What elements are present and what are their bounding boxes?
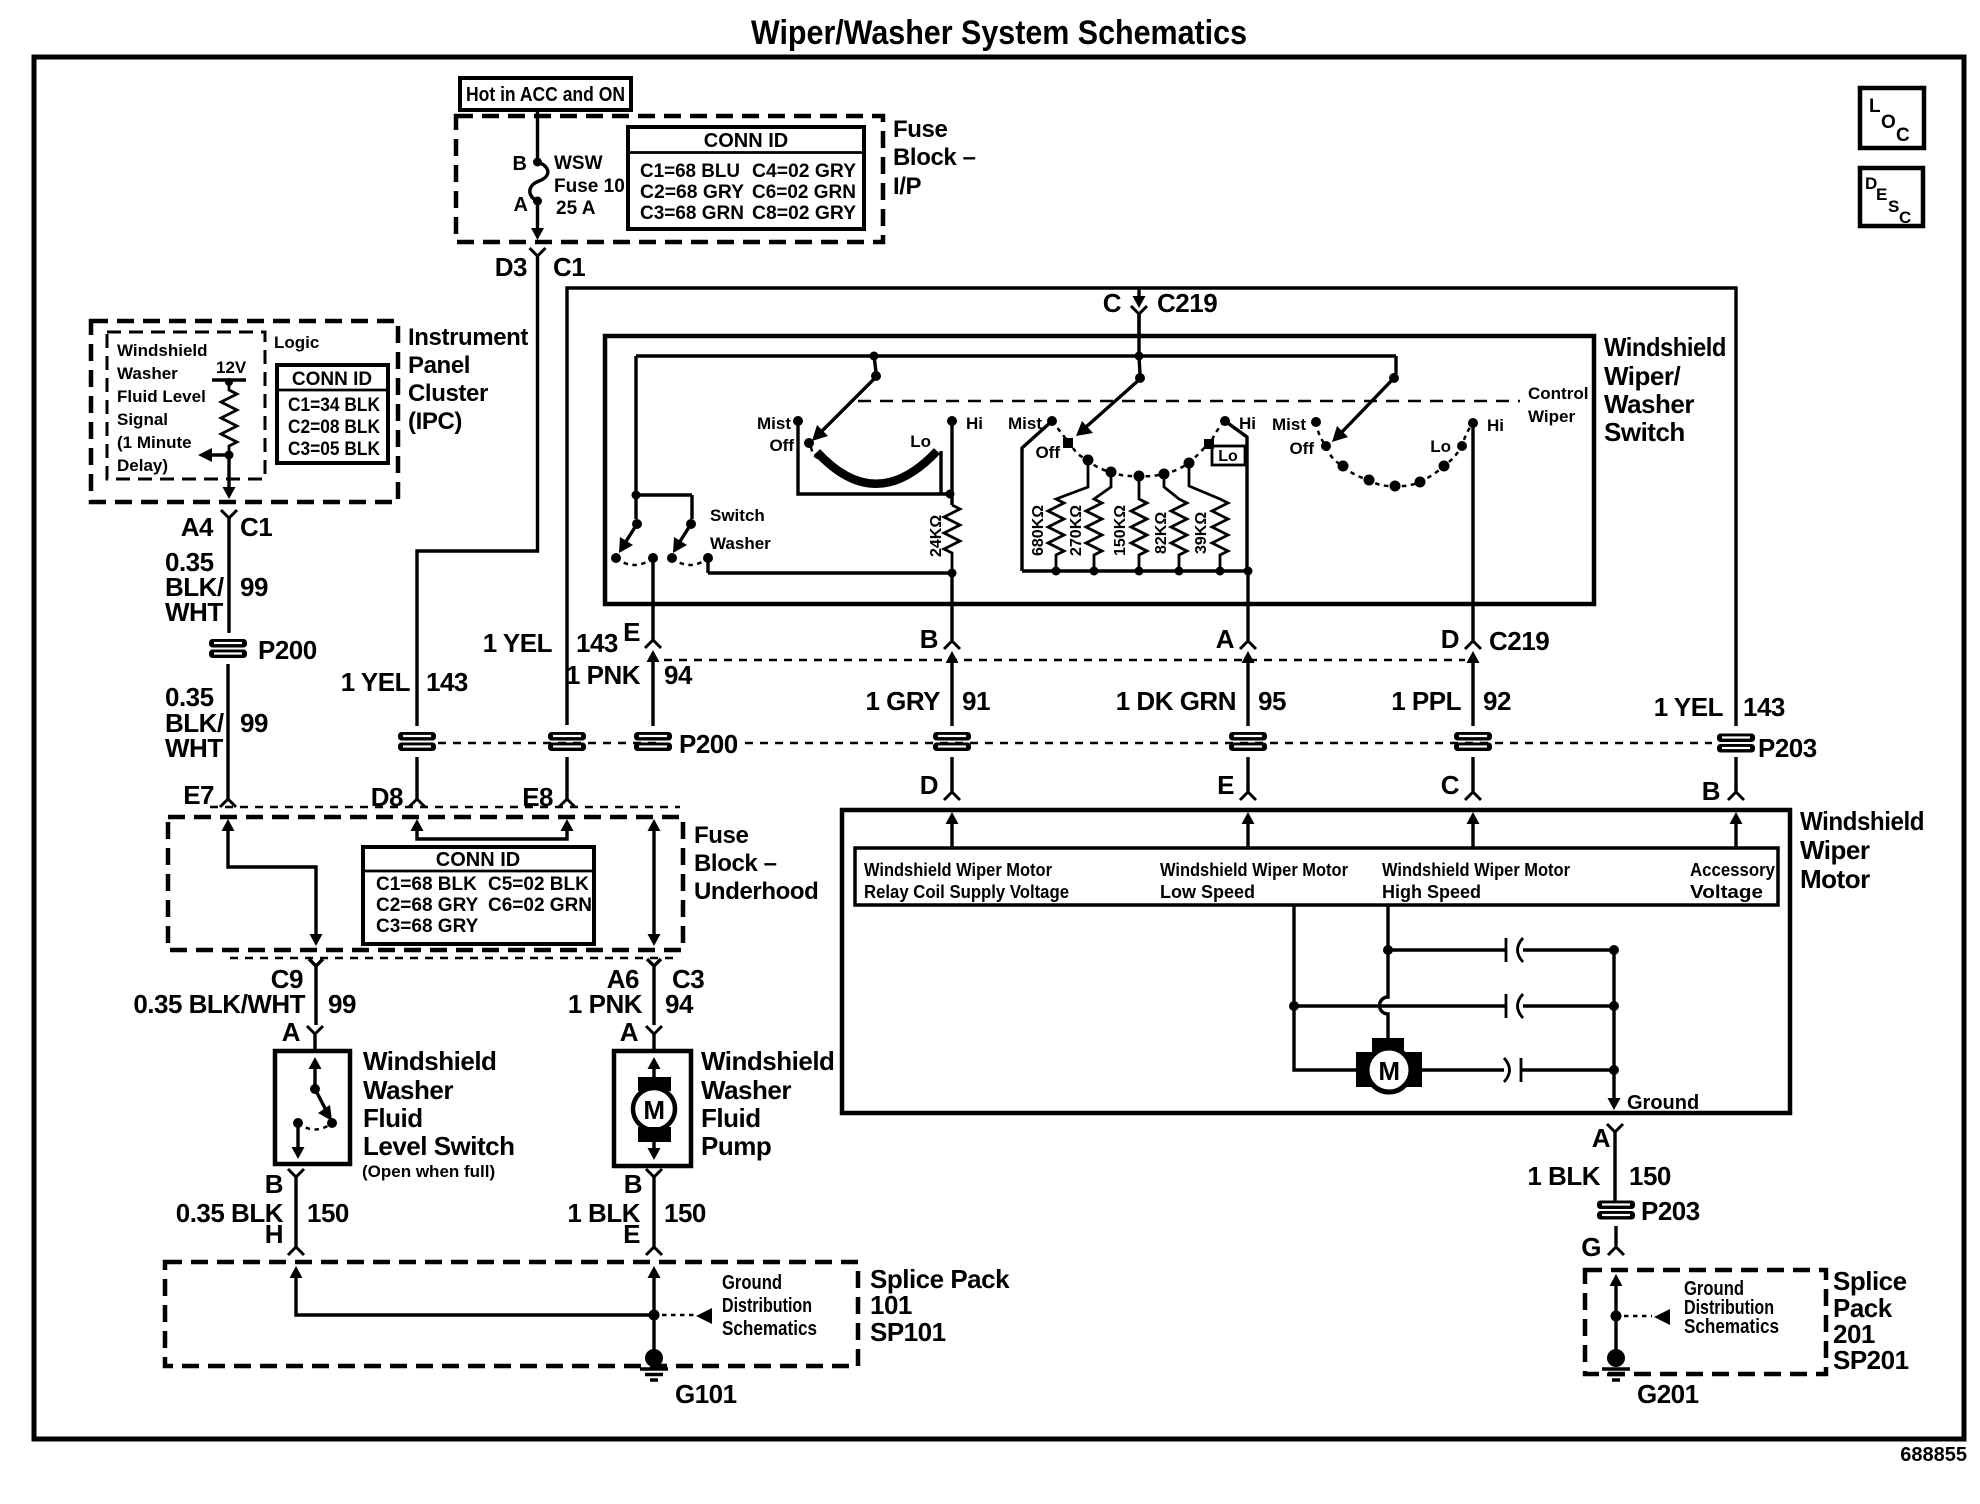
svg-text:C2=68 GRY: C2=68 GRY (640, 182, 744, 203)
resistor 680K (1030, 460, 1088, 576)
terminal A (C219) (1216, 604, 1256, 726)
fuse WSW Fuse 10 25A (513, 153, 625, 240)
entry arrows into motor box (946, 812, 959, 848)
terminal B (motor accessory) (1702, 776, 1744, 806)
svg-text:Panel: Panel (408, 352, 470, 379)
h2 with capacitor (1294, 994, 1614, 1018)
svg-text:Washer: Washer (710, 534, 771, 553)
resistor 24K (944, 505, 960, 569)
wire label 0.35 BLK 150 (176, 1198, 349, 1228)
svg-text:150KΩ: 150KΩ (1112, 505, 1129, 556)
arc dots g3 (1338, 461, 1450, 492)
svg-text:C219: C219 (1157, 288, 1217, 318)
terminal E7 (183, 780, 236, 810)
svg-text:Delay): Delay) (117, 456, 168, 475)
svg-text:Mist: Mist (1272, 415, 1306, 434)
svg-text:Wiper/Washer System Schematics: Wiper/Washer System Schematics (751, 14, 1247, 52)
svg-text:Lo: Lo (1430, 437, 1451, 456)
dashed arc g3 (1316, 422, 1473, 486)
motor internal: high speed drop v1 (1294, 905, 1356, 1070)
terminal D (C219) (1441, 604, 1549, 726)
svg-text:C5=02 BLK: C5=02 BLK (488, 874, 589, 895)
svg-text:Windshield: Windshield (363, 1046, 496, 1076)
resistor 150K (1112, 476, 1147, 576)
svg-text:C: C (1441, 770, 1460, 800)
svg-text:1 PPL: 1 PPL (1391, 686, 1461, 716)
svg-text:150: 150 (1629, 1161, 1671, 1191)
label Switch Washer (710, 506, 771, 553)
svg-text:1 YEL: 1 YEL (483, 628, 553, 658)
washer output wire to E (651, 558, 654, 604)
svg-text:Underhood: Underhood (694, 878, 818, 905)
svg-text:C1=68 BLK: C1=68 BLK (376, 874, 477, 895)
terminal E (C219) (623, 604, 661, 726)
inline connector P203 on accessory wire (1717, 733, 1817, 763)
svg-text:Block –: Block – (893, 144, 976, 171)
CONN ID table (underhood) (363, 847, 594, 944)
svg-text:C6=02 GRN: C6=02 GRN (488, 895, 592, 916)
label pump (701, 1046, 834, 1161)
svg-text:Hi: Hi (1487, 416, 1504, 435)
svg-text:O: O (1881, 112, 1896, 133)
svg-text:Fuse: Fuse (694, 822, 748, 849)
svg-text:B: B (513, 153, 527, 175)
svg-text:12V: 12V (216, 358, 247, 377)
svg-text:P200: P200 (679, 729, 738, 759)
svg-text:82KΩ: 82KΩ (1153, 512, 1170, 554)
svg-text:Lo: Lo (910, 432, 931, 451)
svg-text:B: B (920, 624, 938, 654)
svg-text:C8=02 GRY: C8=02 GRY (752, 203, 856, 224)
C219 dashed connector line (664, 659, 1465, 662)
bus junction to A output (1244, 567, 1253, 605)
svg-text:C1: C1 (553, 252, 585, 282)
svg-text:E7: E7 (183, 780, 214, 810)
svg-text:143: 143 (576, 628, 618, 658)
control wiper dashed line (858, 400, 1520, 403)
resistor 39K (1189, 463, 1228, 576)
svg-text:Windshield: Windshield (1604, 332, 1726, 362)
motor internal: drop v2 with hop (1380, 905, 1389, 1038)
svg-text:B: B (624, 1169, 642, 1199)
svg-text:1 YEL: 1 YEL (1654, 692, 1724, 722)
svg-text:Mist: Mist (757, 414, 791, 433)
svg-text:39KΩ: 39KΩ (1193, 512, 1210, 554)
switch box (605, 336, 1594, 604)
junction v1/h2 (1289, 1001, 1299, 1011)
svg-text:(IPC): (IPC) (408, 408, 462, 435)
wire P200 to E8 (565, 757, 568, 799)
svg-text:Accessory: Accessory (1690, 860, 1775, 880)
wire label 1 BLK 150 (567, 1198, 706, 1228)
svg-text:95: 95 (1258, 686, 1286, 716)
svg-text:Windshield: Windshield (117, 341, 208, 360)
svg-text:Fluid: Fluid (363, 1103, 423, 1133)
svg-text:Windshield: Windshield (701, 1046, 834, 1076)
svg-text:WHT: WHT (165, 597, 223, 627)
fuse block underhood dashed box (168, 817, 683, 950)
dashed arc Off to Lo band g1 (811, 447, 824, 460)
SP101 internals: E branch to ground (648, 1266, 661, 1352)
svg-text:Fluid Level: Fluid Level (117, 387, 206, 406)
svg-text:A: A (282, 1017, 301, 1047)
wire label 0.35 BLK/WHT 99 (133, 989, 356, 1019)
motor header box (855, 848, 1778, 905)
svg-text:A: A (514, 194, 528, 216)
CONN ID table (I/P) (628, 127, 864, 229)
svg-text:Fuse 10: Fuse 10 (554, 176, 625, 197)
svg-text:C2=68 GRY: C2=68 GRY (376, 895, 479, 916)
svg-text:G101: G101 (675, 1379, 737, 1409)
svg-text:M: M (643, 1095, 664, 1125)
connector face dashed line (top) (210, 806, 680, 809)
svg-text:Ground: Ground (1627, 1092, 1699, 1114)
entry arrows D8-E8 internal link (411, 819, 574, 839)
wire label 0.35 BLK/WHT 99 (lower) (165, 682, 268, 763)
Lo terminal (boxed) g2 (1204, 439, 1245, 465)
header text low speed (1160, 860, 1348, 902)
svg-text:101: 101 (870, 1290, 912, 1320)
svg-text:Off: Off (1289, 439, 1314, 458)
svg-text:Voltage: Voltage (1690, 882, 1763, 902)
inline connector P200 on D8 wire (398, 732, 436, 751)
svg-text:CONN ID: CONN ID (292, 369, 372, 390)
svg-text:Schematics: Schematics (722, 1318, 817, 1340)
g2 left outline Mist to bus (1022, 421, 1052, 571)
g1 common wiring (798, 421, 952, 505)
level switch internals (292, 1057, 338, 1159)
wiper arm 1 (pivot and arrow) (812, 352, 881, 442)
Off terminal g2 (1035, 438, 1073, 462)
svg-text:D3: D3 (495, 252, 527, 282)
terminal D8 (371, 782, 425, 812)
svg-text:Windshield Wiper Motor: Windshield Wiper Motor (1382, 860, 1570, 880)
terminal G (splice pack 201) (1581, 1226, 1624, 1262)
wire label 1 YEL 143 (E8 riser) (483, 628, 618, 658)
svg-text:P203: P203 (1758, 733, 1817, 763)
svg-text:C6=02 GRN: C6=02 GRN (752, 182, 856, 203)
svg-text:150: 150 (664, 1198, 706, 1228)
resistor 82K (1153, 474, 1187, 576)
svg-text:SP101: SP101 (870, 1317, 946, 1347)
wire label 1 PNK 94 (566, 660, 693, 690)
svg-text:Switch: Switch (1604, 417, 1685, 447)
svg-text:Washer: Washer (1604, 389, 1694, 419)
ground bus v3 (1608, 945, 1621, 1110)
Mist terminal g1 (757, 414, 803, 433)
wire P203 down to motor B (1734, 757, 1737, 792)
connector face dashed line (bottom) (230, 957, 680, 960)
svg-text:WHT: WHT (165, 733, 223, 763)
wire down to IPC edge (223, 455, 236, 499)
washer return wire (706, 558, 709, 573)
svg-text:Hot in ACC and ON: Hot in ACC and ON (466, 84, 625, 106)
svg-text:Hi: Hi (1239, 414, 1256, 433)
motor M symbol (1356, 1038, 1422, 1092)
wire A4 to P200 (0.35 BLK/WHT 99) (227, 518, 230, 633)
svg-text:Windshield: Windshield (1800, 806, 1924, 836)
connector A4/C1 (181, 510, 273, 542)
svg-text:C1: C1 (240, 512, 272, 542)
svg-text:99: 99 (240, 572, 268, 602)
svg-text:B: B (265, 1169, 283, 1199)
svg-text:C: C (1103, 288, 1122, 318)
svg-text:C2=08 BLK: C2=08 BLK (288, 417, 380, 438)
svg-text:P203: P203 (1641, 1196, 1700, 1226)
svg-text:SP201: SP201 (1833, 1345, 1909, 1375)
inline connector P200 (IPC wire) (209, 635, 317, 665)
Lo terminal g1 (910, 432, 931, 451)
svg-text:24KΩ: 24KΩ (928, 515, 945, 557)
svg-text:143: 143 (1743, 692, 1785, 722)
Mist terminal g2 (1008, 414, 1057, 433)
label splice pack 101 (870, 1264, 1010, 1347)
connector D3/C1 (495, 248, 586, 282)
svg-text:270KΩ: 270KΩ (1068, 505, 1085, 556)
wire E8 riser and top horizontal to accessory drop (567, 288, 1736, 726)
F6-C3 pass-through wire (648, 819, 661, 946)
svg-text:D: D (920, 770, 938, 800)
svg-text:Logic: Logic (274, 333, 319, 352)
terminal B (C219) (920, 604, 960, 726)
wire label 1 YEL 143 (left) (341, 667, 468, 697)
label Control Wiper (1528, 384, 1588, 426)
svg-text:D: D (1441, 624, 1459, 654)
label Windshield Wiper/Washer Switch (1604, 332, 1726, 447)
svg-text:1 YEL: 1 YEL (341, 667, 411, 697)
Lo terminal g3 (1430, 437, 1467, 456)
terminal C9 (271, 959, 323, 1025)
Hot in ACC and ON box (460, 78, 631, 110)
svg-text:CONN ID: CONN ID (704, 130, 788, 152)
svg-text:Block –: Block – (694, 850, 777, 877)
washer pole 2 (673, 519, 696, 553)
svg-text:(Open when full): (Open when full) (362, 1162, 495, 1181)
svg-text:A: A (620, 1017, 639, 1047)
svg-text:C3=05 BLK: C3=05 BLK (288, 439, 380, 460)
svg-text:CONN ID: CONN ID (436, 849, 520, 871)
washer pole 1 (619, 491, 692, 554)
svg-text:C3=68 GRN: C3=68 GRN (640, 203, 744, 224)
svg-text:C1=34 BLK: C1=34 BLK (288, 395, 380, 416)
Hi terminal g3 (1468, 416, 1504, 435)
svg-text:Cluster: Cluster (408, 380, 488, 407)
svg-text:Ground: Ground (722, 1272, 782, 1294)
12V supply bar (212, 358, 247, 386)
wire P200 to E7 (226, 664, 229, 799)
svg-text:WSW: WSW (554, 153, 603, 174)
svg-text:Fuse: Fuse (893, 116, 947, 143)
svg-text:94: 94 (664, 660, 693, 690)
svg-text:Splice: Splice (1833, 1266, 1907, 1296)
svg-text:Off: Off (1035, 443, 1060, 462)
svg-text:94: 94 (665, 989, 694, 1019)
svg-text:L: L (1869, 96, 1881, 117)
svg-text:C: C (1896, 125, 1910, 146)
ground G201 (1602, 1349, 1699, 1409)
signal tap arrow (left) (198, 448, 234, 462)
inline connector P200 on E8 wire (548, 732, 586, 751)
svg-text:Switch: Switch (710, 506, 765, 525)
svg-text:I/P: I/P (893, 173, 922, 200)
svg-text:Pump: Pump (701, 1131, 771, 1161)
svg-text:Control: Control (1528, 384, 1588, 403)
svg-text:C1=68 BLU: C1=68 BLU (640, 161, 740, 182)
svg-text:A4: A4 (181, 512, 214, 542)
svg-text:Motor: Motor (1800, 864, 1870, 894)
wire label 1 GRY 91 (865, 686, 990, 716)
terminal A6/C3 (607, 959, 705, 1025)
svg-text:688855: 688855 (1900, 1444, 1967, 1466)
svg-text:Distribution: Distribution (722, 1295, 812, 1317)
inline connector (1 DK GRN) (1229, 732, 1267, 751)
svg-text:E: E (1876, 185, 1887, 204)
svg-text:Relay Coil Supply Voltage: Relay Coil Supply Voltage (864, 882, 1069, 902)
svg-text:G: G (1581, 1232, 1601, 1262)
svg-text:Wiper/: Wiper/ (1604, 361, 1680, 391)
svg-text:Schematics: Schematics (1684, 1316, 1779, 1338)
svg-text:25 A: 25 A (556, 198, 596, 219)
inline connector (1 GRY) (933, 732, 971, 751)
junction to washer switch return (708, 569, 957, 605)
CONN ID table (IPC) (277, 365, 388, 463)
svg-text:Wiper: Wiper (1528, 407, 1575, 426)
entry arrow E7 and internal jog to C9 (222, 819, 323, 946)
terminal D (motor) (920, 757, 960, 800)
wire label 1 PNK 94 (568, 989, 694, 1019)
terminal E (splice pack) (623, 1219, 662, 1255)
label Instrument Panel Cluster (IPC) (408, 324, 528, 435)
wire P200 to D8 (415, 757, 418, 799)
Hi terminal g2 (1220, 414, 1256, 433)
inner box text (117, 341, 208, 475)
svg-text:H: H (265, 1219, 283, 1249)
terminal C (motor) (1441, 757, 1481, 800)
SP201 internals (1610, 1274, 1623, 1352)
IPC dashed box (91, 321, 398, 502)
svg-text:(1 Minute: (1 Minute (117, 433, 192, 452)
svg-text:150: 150 (307, 1198, 349, 1228)
svg-text:C219: C219 (1489, 626, 1549, 656)
dashed resistor-tap arc g2 (1052, 421, 1225, 476)
thick contact band Off-Lo g1 (817, 451, 937, 484)
svg-text:1 GRY: 1 GRY (865, 686, 940, 716)
svg-text:P200: P200 (258, 635, 317, 665)
wire label 1 YEL 143 (accessory riser) (1654, 692, 1785, 722)
svg-text:C4=02 GRY: C4=02 GRY (752, 161, 856, 182)
pump motor internals (633, 1057, 675, 1160)
svg-text:1 BLK: 1 BLK (1527, 1161, 1600, 1191)
arc tap dots g2 (1083, 455, 1195, 482)
svg-text:Mist: Mist (1008, 414, 1042, 433)
P200/P203 harness dashed line (438, 742, 1712, 745)
internal feed wire (636, 314, 1396, 495)
svg-text:Windshield Wiper Motor: Windshield Wiper Motor (1160, 860, 1348, 880)
DESC legend box (1860, 168, 1923, 227)
svg-text:Wiper: Wiper (1800, 835, 1870, 865)
svg-text:Washer: Washer (117, 364, 178, 383)
label Fuse Block I/P (893, 116, 976, 200)
resistor (pull-up) in IPC (221, 382, 237, 452)
header text relay coil supply voltage (864, 860, 1069, 902)
svg-text:Hi: Hi (966, 414, 983, 433)
wire label 0.35 BLK/WHT 99 (upper) (165, 547, 268, 627)
ground G101 (640, 1349, 737, 1409)
svg-text:92: 92 (1483, 686, 1511, 716)
inline connector (1 PPL) (1454, 732, 1492, 751)
wiper arm 2 (1076, 352, 1145, 437)
g3 output wire Hi to D (1471, 423, 1474, 604)
label Fuse Block Underhood (694, 822, 818, 905)
Mist terminal g3 (1272, 415, 1321, 434)
svg-text:680KΩ: 680KΩ (1030, 505, 1047, 556)
Hi terminal g1 (947, 414, 983, 433)
svg-text:G201: G201 (1637, 1379, 1699, 1409)
wiper arm 3 (1332, 356, 1399, 442)
svg-text:143: 143 (426, 667, 468, 697)
label splice pack 201 (1833, 1266, 1909, 1375)
svg-text:C: C (1899, 208, 1911, 227)
svg-text:91: 91 (962, 686, 990, 716)
terminal B (level switch) (265, 1169, 304, 1247)
svg-text:C3=68 GRY: C3=68 GRY (376, 916, 479, 937)
wire label 1 PPL 92 (1391, 686, 1511, 716)
header text high speed (1382, 860, 1570, 902)
terminal B (pump) (624, 1169, 662, 1247)
label Windshield Wiper Motor (1800, 806, 1924, 894)
Off terminal g3 (1289, 439, 1331, 458)
junction v2/h1 (1383, 945, 1393, 955)
washer fluid level signal inner dashed box (107, 332, 265, 479)
Off terminal g1 (769, 436, 814, 455)
h3 with capacitor (mirrored) (1422, 1058, 1614, 1082)
inline connector P200 (washer pump wire) (634, 732, 672, 751)
ground distribution pointer (SP201) (1624, 1278, 1779, 1338)
resistor bank bus (1022, 569, 1248, 572)
Fuse Block I/P dashed box (456, 116, 883, 242)
svg-text:A: A (1216, 624, 1235, 654)
svg-text:Low Speed: Low Speed (1160, 882, 1255, 902)
inline connector P203 (ground wire) (1597, 1196, 1700, 1226)
svg-text:B: B (1702, 776, 1720, 806)
connector A (pump) (620, 1017, 662, 1051)
svg-text:Windshield Wiper Motor: Windshield Wiper Motor (864, 860, 1052, 880)
svg-text:M: M (1378, 1056, 1399, 1086)
wire from Hot box to fuse (536, 110, 539, 160)
wire label 1 DK GRN 95 (1116, 686, 1286, 716)
svg-text:Signal: Signal (117, 410, 168, 429)
terminal H (splice pack) (265, 1219, 304, 1255)
svg-text:High Speed: High Speed (1382, 882, 1481, 902)
svg-text:1 PNK: 1 PNK (566, 660, 641, 690)
svg-text:Washer: Washer (363, 1075, 453, 1105)
svg-text:E: E (623, 1219, 640, 1249)
svg-text:Instrument: Instrument (408, 324, 528, 351)
svg-text:99: 99 (240, 708, 268, 738)
resistor 270K (1068, 472, 1111, 576)
terminal E8 (522, 782, 575, 812)
wire fuse output down, jog left, to D8 (circuit 143) (417, 256, 538, 726)
svg-text:E: E (623, 617, 640, 647)
wire label 1 BLK 150 (1527, 1161, 1671, 1191)
C219 pin C drop with arrow (1103, 288, 1217, 336)
svg-text:E: E (1217, 770, 1234, 800)
svg-text:Off: Off (769, 436, 794, 455)
svg-text:Level Switch: Level Switch (363, 1131, 515, 1161)
svg-text:Washer: Washer (701, 1075, 791, 1105)
ground distribution pointer (SP101) (662, 1272, 817, 1340)
terminal A (below motor) (1592, 1123, 1623, 1202)
